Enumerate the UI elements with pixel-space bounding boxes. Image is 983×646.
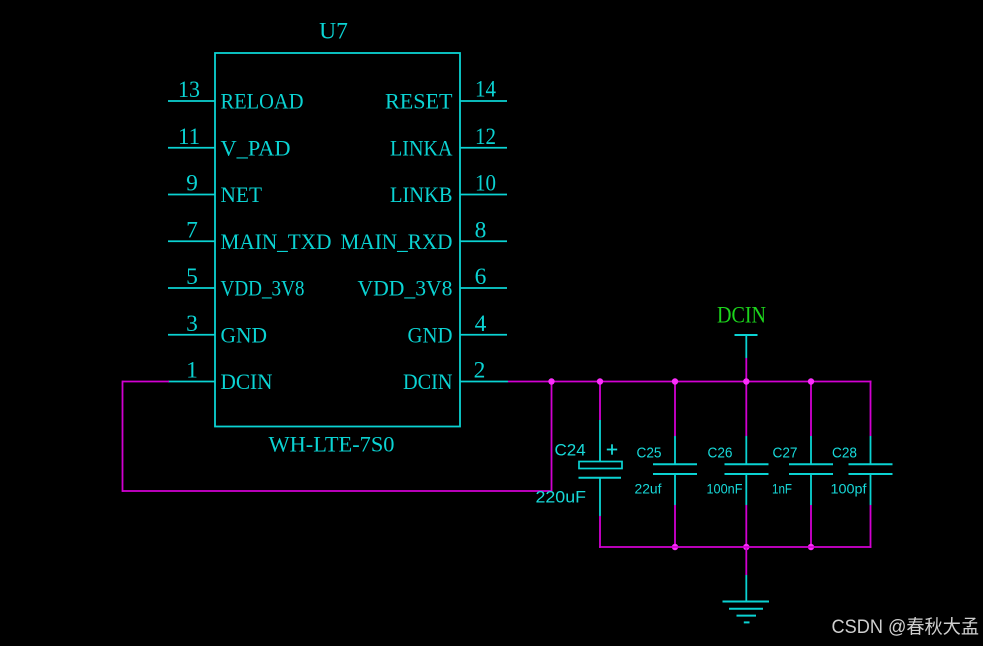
svg-text:8: 8 xyxy=(475,217,487,243)
refdes C27 xyxy=(773,445,798,462)
pin name LINKB xyxy=(390,182,453,207)
pin 6 VDD_3V8 stub xyxy=(460,287,507,289)
svg-text:WH-LTE-7S0: WH-LTE-7S0 xyxy=(269,432,395,457)
svg-text:MAIN_RXD: MAIN_RXD xyxy=(341,229,453,254)
pin number 11 xyxy=(178,124,200,150)
pin number 4 xyxy=(475,311,487,337)
part value WH-LTE-7S0 xyxy=(269,432,395,457)
svg-text:C26: C26 xyxy=(708,445,733,462)
pin name RESET xyxy=(385,89,453,114)
watermark CSDN xyxy=(832,616,980,638)
pin number 5 xyxy=(186,264,198,290)
pin 5 VDD_3V8 stub xyxy=(168,287,215,289)
svg-text:10: 10 xyxy=(475,171,496,197)
pin 9 NET stub xyxy=(168,194,215,196)
svg-text:VDD_3V8: VDD_3V8 xyxy=(358,276,453,301)
pin 12 LINKA stub xyxy=(460,147,507,149)
svg-text:11: 11 xyxy=(178,124,200,150)
value 220uF xyxy=(536,488,587,507)
svg-text:RELOAD: RELOAD xyxy=(221,89,304,114)
pin number 9 xyxy=(186,171,198,197)
value 22uf xyxy=(635,481,662,497)
svg-text:3: 3 xyxy=(186,311,198,337)
svg-text:C24: C24 xyxy=(555,441,586,460)
svg-text:14: 14 xyxy=(475,77,496,103)
ground xyxy=(723,575,770,622)
svg-text:220uF: 220uF xyxy=(536,488,587,507)
svg-text:C27: C27 xyxy=(773,445,798,462)
refdes C25 xyxy=(637,445,662,462)
pin number 14 xyxy=(475,77,496,103)
pin number 13 xyxy=(178,77,200,103)
svg-text:13: 13 xyxy=(178,77,200,103)
pin name GND left xyxy=(221,322,268,347)
svg-text:VDD_3V8: VDD_3V8 xyxy=(221,276,305,301)
refdes C28 xyxy=(832,445,857,462)
value 100pf xyxy=(831,481,867,497)
svg-text:NET: NET xyxy=(221,182,263,207)
svg-text:C25: C25 xyxy=(637,445,662,462)
pin 3 GND stub xyxy=(168,334,215,336)
svg-text:5: 5 xyxy=(186,264,198,290)
pin number 10 xyxy=(475,171,496,197)
value 100nF xyxy=(707,481,743,497)
capacitor C24 xyxy=(579,382,623,548)
wire pin1 to loop left segment xyxy=(123,381,170,383)
pin name RELOAD xyxy=(221,89,304,114)
power symbol DCIN xyxy=(717,303,766,359)
svg-text:DCIN: DCIN xyxy=(403,369,453,394)
value 1nF xyxy=(772,481,792,497)
pin 10 LINKB stub xyxy=(460,194,507,196)
junction C24 top xyxy=(597,378,603,384)
wire loop riser to bus xyxy=(551,381,553,492)
pin 2 DCIN stub xyxy=(460,381,508,383)
svg-text:12: 12 xyxy=(475,124,496,150)
pin name NET xyxy=(221,182,263,207)
pin number 2 xyxy=(474,358,486,384)
capacitor C28 xyxy=(849,381,893,548)
pin 11 V_PAD stub xyxy=(168,147,215,149)
pin number 1 xyxy=(186,358,198,384)
pin name DCIN right xyxy=(403,369,453,394)
svg-text:MAIN_TXD: MAIN_TXD xyxy=(221,229,332,254)
junction C25 top xyxy=(672,378,678,384)
svg-text:LINKB: LINKB xyxy=(390,182,453,207)
svg-text:9: 9 xyxy=(186,171,198,197)
capacitor C27 xyxy=(789,382,833,548)
refdes C24 xyxy=(555,441,586,460)
junction C26 top xyxy=(743,378,749,384)
svg-text:7: 7 xyxy=(186,217,198,243)
refdes U7 xyxy=(319,19,348,45)
svg-text:100pf: 100pf xyxy=(831,481,867,497)
svg-text:DCIN: DCIN xyxy=(717,303,766,328)
svg-text:U7: U7 xyxy=(319,19,348,45)
svg-text:CSDN @春秋大孟: CSDN @春秋大孟 xyxy=(832,616,980,638)
svg-text:GND: GND xyxy=(408,322,453,347)
pin 13 RELOAD stub xyxy=(168,100,215,102)
wire ground riser xyxy=(745,547,747,575)
junction C25 bottom xyxy=(672,544,678,550)
wire DCIN drop xyxy=(745,358,747,382)
svg-text:100nF: 100nF xyxy=(707,481,743,497)
svg-text:C28: C28 xyxy=(832,445,857,462)
junction C27 bottom xyxy=(808,544,814,550)
svg-text:RESET: RESET xyxy=(385,89,453,114)
junction riser-bus xyxy=(548,378,554,384)
pin name MAIN_TXD xyxy=(221,229,332,254)
pin 14 RESET stub xyxy=(460,100,507,102)
capacitor C25 xyxy=(653,382,697,548)
polarity plus C24 xyxy=(607,444,617,454)
refdes C26 xyxy=(708,445,733,462)
wire top bus from pin2 xyxy=(508,381,872,383)
pin number 6 xyxy=(475,264,487,290)
svg-text:DCIN: DCIN xyxy=(221,369,273,394)
junction C27 top xyxy=(808,378,814,384)
pin number 3 xyxy=(186,311,198,337)
pin name LINKA xyxy=(390,135,453,160)
IC U7 body xyxy=(215,53,460,427)
svg-text:V_PAD: V_PAD xyxy=(221,135,291,160)
svg-text:22uf: 22uf xyxy=(635,481,662,497)
pin 8 MAIN_RXD stub xyxy=(460,240,507,242)
svg-text:2: 2 xyxy=(474,358,486,384)
svg-text:LINKA: LINKA xyxy=(390,135,453,160)
pin name VDD_3V8 left xyxy=(221,276,305,301)
junction C26 bottom xyxy=(743,544,749,550)
svg-text:GND: GND xyxy=(221,322,268,347)
svg-text:1nF: 1nF xyxy=(772,481,792,497)
pin 1 DCIN stub xyxy=(168,381,215,383)
pin name VDD_3V8 right xyxy=(358,276,453,301)
capacitor C26 xyxy=(725,382,769,548)
wire loop left vertical xyxy=(122,381,124,492)
wire bottom bus xyxy=(599,546,871,548)
svg-text:1: 1 xyxy=(186,358,198,384)
pin number 7 xyxy=(186,217,198,243)
pin 7 MAIN_TXD stub xyxy=(168,240,215,242)
pin name DCIN left xyxy=(221,369,273,394)
pin name MAIN_RXD xyxy=(341,229,453,254)
pin number 8 xyxy=(475,217,487,243)
pin 4 GND stub xyxy=(460,334,507,336)
pin number 12 xyxy=(475,124,496,150)
pin name V_PAD xyxy=(221,135,291,160)
svg-text:4: 4 xyxy=(475,311,487,337)
wire loop bottom horizontal xyxy=(123,490,552,492)
pin name GND right xyxy=(408,322,453,347)
svg-text:6: 6 xyxy=(475,264,487,290)
